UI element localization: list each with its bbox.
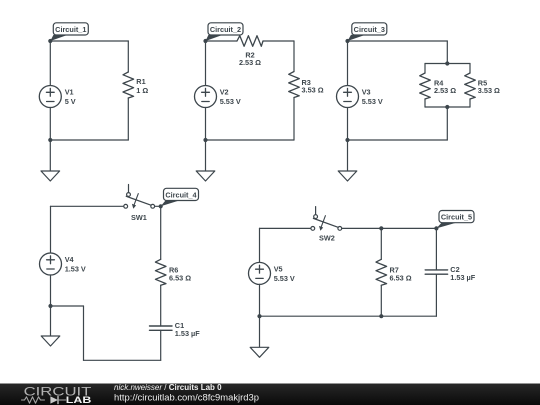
node junction dot c4 bottom: [48, 304, 52, 308]
svg-text:SW2: SW2: [319, 234, 335, 243]
wire bottom c5: [260, 315, 437, 317]
wire right upper c2: [293, 41, 295, 72]
svg-text:LAB: LAB: [66, 395, 92, 405]
wire right upper c4: [160, 206, 162, 259]
wire right lower c3: [446, 107, 448, 140]
wire bottom riser c4: [83, 306, 85, 360]
ground c5: [250, 316, 269, 357]
wire R5 upper lead: [469, 64, 471, 74]
logo CIRCUIT text: [24, 384, 92, 398]
ground c1: [41, 140, 60, 181]
ground c4: [41, 306, 60, 346]
svg-text:V3: V3: [362, 88, 371, 97]
svg-text:R1: R1: [136, 77, 145, 86]
wire left lower c5: [259, 284, 261, 316]
svg-text:Circuit_2: Circuit_2: [210, 25, 241, 34]
svg-text:V4: V4: [65, 255, 75, 264]
svg-text:5.53 V: 5.53 V: [362, 97, 383, 106]
node junction dot c1 bottom: [48, 138, 52, 142]
node junction dot c5 bottom left: [257, 314, 261, 318]
node label Circuit_2: [206, 23, 244, 41]
wire left upper c1: [49, 41, 51, 86]
node label Circuit_5: [436, 211, 474, 229]
ground c3: [338, 140, 357, 181]
wire R5 lower lead: [469, 99, 471, 107]
node junction dot c3 parallel top: [445, 61, 449, 65]
voltage source V3: [337, 86, 383, 108]
wire R6 to C1: [160, 285, 162, 326]
svg-text:1.53 V: 1.53 V: [65, 264, 86, 273]
svg-text:1.53 µF: 1.53 µF: [175, 329, 200, 338]
wire left upper c5: [259, 228, 261, 262]
node label Circuit_3: [348, 23, 387, 41]
resistor R4: [420, 73, 457, 99]
svg-text:V5: V5: [274, 265, 283, 274]
resistor R7: [376, 259, 412, 285]
wire right lower c2: [293, 98, 295, 141]
footer bar: [0, 384, 540, 405]
resistor R6: [155, 259, 191, 285]
wire bottom c3: [348, 139, 448, 141]
logo LAB text: [66, 395, 92, 405]
svg-text:http://circuitlab.com/c8fc9mak: http://circuitlab.com/c8fc9makjrd3p: [114, 392, 259, 402]
node junction dot c5 R7 top: [379, 226, 383, 230]
svg-text:6.53 Ω: 6.53 Ω: [390, 274, 412, 283]
logo diode: [50, 396, 65, 403]
ground c2: [196, 140, 215, 181]
svg-text:6.53 Ω: 6.53 Ω: [169, 274, 191, 283]
resistor R5: [465, 73, 500, 99]
node junction dot c3 parallel bottom: [445, 105, 449, 109]
capacitor C2: [425, 265, 476, 282]
wire top right c2: [263, 40, 294, 42]
wire left lower c2: [205, 108, 207, 141]
svg-text:Circuit_5: Circuit_5: [441, 213, 472, 222]
svg-text:1 Ω: 1 Ω: [136, 86, 148, 95]
logo resistor zigzag: [22, 397, 45, 403]
node A junction dot: [48, 39, 52, 43]
footer url line: [114, 392, 259, 402]
wire top c3: [348, 40, 448, 42]
wire top left c2: [206, 40, 238, 42]
wire left upper c2: [205, 41, 207, 86]
wire right lower c1: [127, 98, 129, 140]
voltage source V2: [195, 86, 241, 108]
wire left lower c1: [49, 108, 51, 141]
wire switch to node c4: [155, 205, 161, 207]
switch SW1: [124, 185, 155, 223]
node junction dot c2 bottom: [203, 138, 207, 142]
svg-text:2.53 Ω: 2.53 Ω: [434, 86, 456, 95]
voltage source V5: [249, 262, 295, 284]
voltage source V1: [39, 86, 75, 108]
wire left lower c4: [50, 275, 52, 306]
svg-text:5.53 V: 5.53 V: [274, 274, 295, 283]
wire parallel top c3: [425, 63, 470, 65]
svg-text:SW1: SW1: [131, 213, 147, 222]
wire R7 node to C2 node: [381, 227, 436, 229]
wire left top c4: [51, 205, 124, 207]
svg-text:5 V: 5 V: [65, 97, 76, 106]
svg-text:3.53 Ω: 3.53 Ω: [478, 86, 500, 95]
node junction dot c4 top: [159, 204, 163, 208]
wire bottom horizontal c1: [50, 139, 128, 141]
node junction dot c5 top right: [434, 226, 438, 230]
svg-text:1.53 µF: 1.53 µF: [450, 273, 475, 282]
resistor R1: [123, 72, 148, 98]
resistor R3: [289, 72, 324, 98]
svg-text:nick.nweisser / Circuits Lab 0: nick.nweisser / Circuits Lab 0: [114, 383, 222, 392]
wire bottom c4: [84, 359, 161, 361]
svg-text:2.53 Ω: 2.53 Ω: [239, 58, 261, 67]
svg-text:V2: V2: [220, 88, 229, 97]
wire C2 lower lead: [435, 274, 437, 316]
wire R7 lower lead: [380, 285, 382, 316]
node label Circuit_1: [50, 23, 88, 41]
wire top horizontal c1: [50, 40, 128, 42]
switch SW2: [311, 207, 342, 243]
capacitor C1: [150, 321, 201, 338]
node junction dot c5 bottom R7: [379, 314, 383, 318]
footer author line: [114, 383, 222, 392]
svg-text:Circuit_3: Circuit_3: [354, 25, 385, 34]
wire C2 upper lead: [435, 228, 437, 270]
wire right drop c3: [446, 41, 448, 64]
wire R4 upper lead: [424, 64, 426, 74]
svg-text:5.53 V: 5.53 V: [220, 97, 241, 106]
wire left top c5: [260, 227, 311, 229]
wire parallel bottom c3: [425, 106, 470, 108]
wire switch to R7 node c5: [342, 227, 382, 229]
node label Circuit_4: [161, 188, 199, 206]
wire left upper c4: [50, 206, 52, 253]
svg-text:Circuit_4: Circuit_4: [165, 190, 197, 199]
wire C1 lower lead: [160, 330, 162, 360]
node junction dot c3 bottom: [345, 138, 349, 142]
wire left lower c3: [347, 108, 349, 141]
wire R4 lower lead: [424, 99, 426, 107]
wire left upper c3: [347, 41, 349, 86]
node junction dot c2 top: [203, 39, 207, 43]
resistor R2: [237, 36, 263, 67]
wire right upper c1: [127, 41, 129, 72]
voltage source V4: [40, 253, 86, 275]
svg-text:Circuit_1: Circuit_1: [55, 25, 86, 34]
wire bottom c2: [206, 139, 295, 141]
svg-text:V1: V1: [65, 88, 74, 97]
wire junction to riser c4: [51, 305, 84, 307]
wire R7 upper lead: [380, 228, 382, 259]
node junction dot c3 top: [345, 39, 349, 43]
svg-text:3.53 Ω: 3.53 Ω: [302, 86, 324, 95]
